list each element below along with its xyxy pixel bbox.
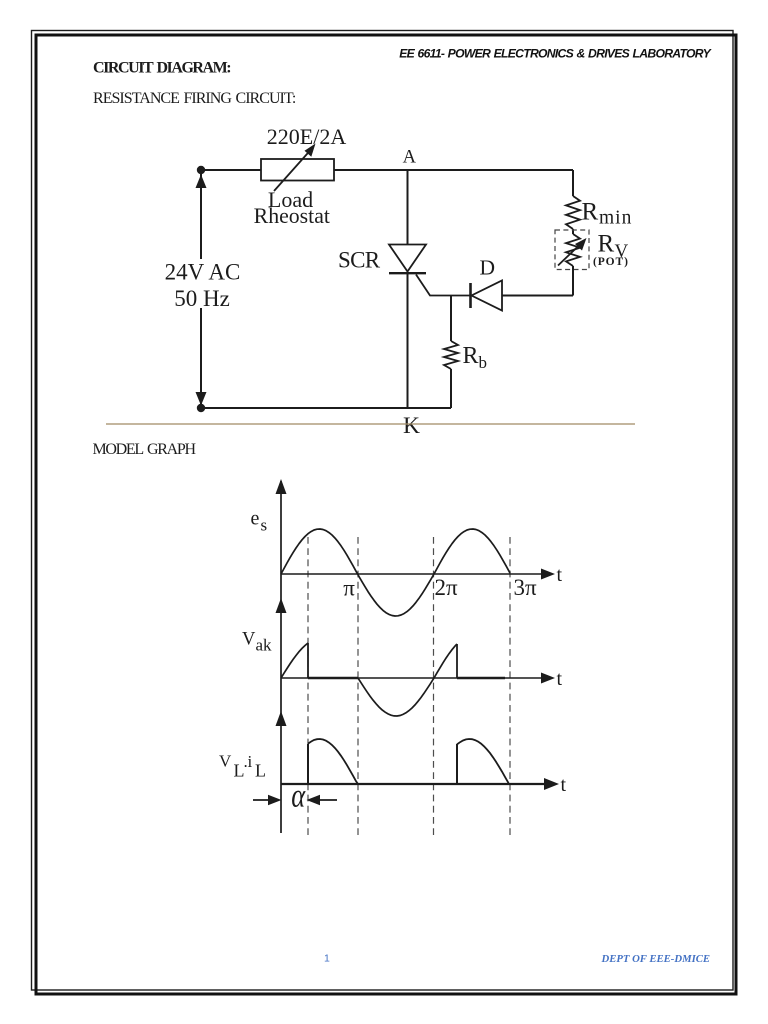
potentiometer RV element bbox=[566, 234, 580, 266]
Vak rise 2pi..2pi+alpha bbox=[434, 644, 457, 678]
graph vertical axis (shared) bbox=[280, 481, 282, 833]
graph3 t label bbox=[561, 774, 567, 796]
dashed grid line at 2pi bbox=[433, 537, 435, 837]
wire: right branch bottom bbox=[572, 266, 574, 296]
wire: diode to right branch bbox=[502, 295, 573, 297]
alpha arrow right bbox=[307, 795, 338, 805]
svg-text:α: α bbox=[291, 776, 306, 814]
wire: bottom rail bbox=[201, 407, 451, 409]
svg-text:220E/2A: 220E/2A bbox=[267, 124, 347, 149]
svg-text:MODEL GRAPH: MODEL GRAPH bbox=[93, 441, 197, 458]
wire: SCR anode from node A bbox=[407, 170, 409, 245]
svg-text:RESISTANCE FIRING CIRCUIT:: RESISTANCE FIRING CIRCUIT: bbox=[93, 90, 296, 107]
svg-text:b: b bbox=[479, 353, 488, 372]
label Rb bbox=[463, 343, 488, 372]
wire: SCR cathode down bbox=[407, 273, 409, 408]
label VL iL bbox=[219, 752, 266, 781]
svg-text:V: V bbox=[219, 752, 232, 771]
label 2pi bbox=[434, 575, 458, 600]
graph3 time axis bbox=[281, 778, 559, 790]
label Rmin bbox=[582, 199, 633, 229]
dashed grid line at alpha bbox=[307, 537, 309, 837]
ac source arrow down bbox=[196, 392, 207, 406]
label Vak bbox=[242, 630, 272, 655]
junction dot top-left bbox=[197, 166, 205, 174]
svg-text:V: V bbox=[242, 630, 256, 650]
label RV (POT) bbox=[593, 231, 629, 269]
svg-text:e: e bbox=[251, 508, 260, 530]
es waveform bbox=[281, 529, 510, 616]
resistor Rmin bbox=[566, 196, 580, 229]
dashed grid line at pi bbox=[357, 537, 359, 837]
svg-text:L: L bbox=[255, 761, 266, 781]
heading CIRCUIT DIAGRAM bbox=[93, 60, 230, 77]
label 24V AC 50 Hz bbox=[163, 259, 242, 311]
Vak zero bold alpha..pi bbox=[308, 677, 358, 680]
wire: top rail left segment bbox=[201, 169, 261, 171]
svg-text:ak: ak bbox=[256, 636, 273, 655]
horizontal rule under circuit bbox=[106, 423, 635, 425]
wire: Rb to bottom rail bbox=[450, 369, 452, 408]
Vak negative half bbox=[358, 678, 434, 716]
svg-text:i: i bbox=[248, 752, 253, 771]
svg-text:π: π bbox=[343, 576, 355, 601]
wire: right branch top bbox=[572, 170, 574, 196]
vertical axis arrowhead graph 3 bbox=[276, 711, 287, 726]
svg-text:50 Hz: 50 Hz bbox=[174, 286, 230, 311]
alpha arrow left bbox=[253, 795, 282, 805]
graph1 time axis bbox=[281, 569, 555, 580]
ac source arrow up bbox=[196, 175, 207, 189]
label Load Rheostat bbox=[254, 187, 330, 228]
VL pulse 1 bbox=[308, 739, 358, 784]
svg-text:t: t bbox=[557, 564, 563, 586]
label es bbox=[251, 508, 268, 535]
svg-text:t: t bbox=[561, 774, 567, 796]
ac source wire (left vertical) bbox=[200, 170, 202, 408]
svg-text:t: t bbox=[557, 668, 563, 690]
label pi bbox=[343, 576, 355, 601]
svg-text:DEPT OF EEE-DMICE: DEPT OF EEE-DMICE bbox=[601, 953, 710, 965]
svg-text:R: R bbox=[598, 231, 615, 258]
svg-text:R: R bbox=[463, 343, 479, 369]
wire: top rail right segment bbox=[334, 169, 573, 171]
VL pulse 2 bbox=[457, 739, 509, 784]
value label 220E/2A bbox=[267, 124, 347, 149]
svg-text:R: R bbox=[582, 199, 599, 226]
svg-text:(POT): (POT) bbox=[593, 256, 629, 268]
svg-text:min: min bbox=[599, 208, 632, 229]
diode D bbox=[471, 281, 503, 311]
label D bbox=[480, 256, 496, 280]
footer page number bbox=[324, 953, 330, 965]
graph2 t label bbox=[557, 668, 563, 690]
dashed grid line at 3pi bbox=[509, 537, 511, 837]
svg-text:2π: 2π bbox=[434, 575, 458, 600]
vertical axis arrowhead graph 1 bbox=[276, 479, 287, 494]
rheostat body (Load Rheostat) bbox=[261, 159, 334, 181]
wire: SCR gate bbox=[416, 275, 470, 296]
resistor Rb bbox=[444, 341, 458, 369]
svg-text:1: 1 bbox=[324, 953, 330, 965]
potentiometer RV wiper arrow bbox=[558, 238, 587, 266]
heading RESISTANCE FIRING CIRCUIT bbox=[93, 90, 296, 107]
svg-text:24V AC: 24V AC bbox=[165, 260, 241, 285]
svg-text:K: K bbox=[403, 413, 420, 439]
Vak zero bold 2pi+alpha.. bbox=[457, 677, 505, 680]
svg-text:s: s bbox=[261, 516, 268, 535]
label 3pi bbox=[513, 575, 537, 600]
vertical axis arrowhead graph 2 bbox=[276, 598, 287, 613]
svg-text:3π: 3π bbox=[513, 575, 537, 600]
potentiometer RV (POT) dashed enclosure bbox=[555, 230, 589, 270]
svg-text:D: D bbox=[480, 256, 496, 280]
Vak waveform rise 0..alpha bbox=[281, 643, 308, 678]
graph1 t label bbox=[557, 564, 563, 586]
node K label bbox=[403, 413, 420, 439]
junction dot bottom-left bbox=[197, 404, 205, 412]
wire: gate junction to Rb bbox=[450, 296, 452, 342]
svg-text:CIRCUIT DIAGRAM:: CIRCUIT DIAGRAM: bbox=[93, 60, 230, 77]
footer dept bbox=[601, 953, 710, 965]
node A label bbox=[403, 148, 417, 168]
wire: between Rmin and RV bbox=[572, 229, 574, 234]
svg-text:SCR: SCR bbox=[338, 248, 381, 273]
label SCR bbox=[338, 248, 381, 273]
heading MODEL GRAPH bbox=[93, 441, 197, 458]
svg-text:EE 6611- POWER ELECTRONICS & D: EE 6611- POWER ELECTRONICS & DRIVES LABO… bbox=[399, 47, 712, 61]
SCR thyristor symbol bbox=[389, 245, 426, 274]
graph2 time axis bbox=[281, 673, 555, 684]
rheostat wiper arrow bbox=[274, 144, 316, 192]
svg-text:A: A bbox=[403, 148, 417, 168]
svg-text:Rheostat: Rheostat bbox=[254, 204, 330, 228]
header title bbox=[399, 47, 712, 61]
alpha label bbox=[291, 776, 306, 814]
